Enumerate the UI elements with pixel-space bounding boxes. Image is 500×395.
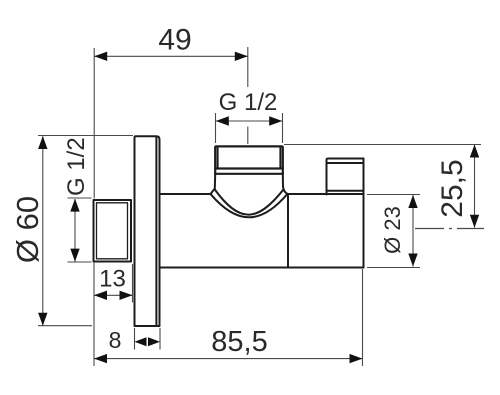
arrow 8 right [148,337,160,346]
arrow 49 right [235,52,248,61]
arrow 85.5 right [350,354,363,363]
arrow 49 left [94,52,107,61]
dim 25.5 top ext (from outlet top) [284,144,481,146]
axis dash-dot centerline [415,228,484,230]
top outlet collar line 1 [215,167,283,169]
dim G1/2 top right ext [282,113,284,143]
top outlet G1/2 top edge [215,146,283,173]
arrow O60 bottom [38,313,47,326]
arrow G1/2 top left [216,116,229,125]
svg-text:13: 13 [99,266,126,293]
dim O60 vertical line [42,136,44,325]
svg-text:8: 8 [109,327,122,353]
arrow 8 left [135,337,147,346]
arrow O60 top [38,136,47,149]
arrow G1/2 top right [269,116,282,125]
outlet right side below collar with flare [283,174,288,194]
dim 13 right ext [132,264,134,303]
body bottom edge [160,267,364,269]
flange right edge inner line [155,137,157,326]
dim 8 right ext [159,328,161,350]
dim O60 top ext [38,135,133,137]
dim O23 bottom ext [367,267,420,269]
body internal step [287,194,289,268]
handle square cap [327,159,364,195]
body right face [363,159,365,268]
handle cap inner top line [327,162,364,164]
dim G1/2 left vertical line [74,199,76,262]
arrow G1/2 left bottom [70,249,79,262]
top outlet collar line 2 [215,173,283,175]
dim 13 line [94,294,133,296]
outlet centerline upper segment [247,47,249,87]
handle cap bottom line [327,190,364,192]
body main top edge [160,193,212,195]
arrow 25.5 top [470,145,479,158]
svg-text:Ø 60: Ø 60 [10,196,45,263]
dim 49 line [94,55,248,57]
dim G1/2 top line [216,120,282,122]
dim O23 top ext [367,194,420,196]
arrow 85.5 left [94,354,107,363]
wall flange plate [135,136,160,326]
left inlet fitting G1/2 outer [94,200,132,262]
dim 49 left extension line (down to inlet fitting) [93,48,95,199]
svg-text:G 1/2: G 1/2 [63,137,90,196]
top outlet inner thread left [217,147,219,169]
saddle inner curve [211,194,287,217]
dim 85.5 line [94,358,363,360]
left inlet fitting inner thread lines [97,203,128,259]
arrow 13 right [120,291,133,300]
dim 49/13/85.5 shared left ext lower part [93,262,95,366]
saddle outer curve [215,190,283,215]
dim G1/2 top left ext [215,113,217,143]
arrow 13 left [94,291,107,300]
outlet centerline lower segment [247,127,249,145]
arrow O23 top [408,195,417,208]
dim 8 left ext [134,328,136,350]
arrow 25.5 bottom [470,215,479,228]
svg-text:25,5: 25,5 [436,159,469,217]
dim 25.5 vertical line [474,145,476,228]
svg-text:85,5: 85,5 [211,326,267,358]
top outlet inner thread right [279,147,281,169]
svg-text:Ø 23: Ø 23 [380,206,405,254]
dim G1/2 left bottom ext [68,261,92,263]
svg-text:G 1/2: G 1/2 [219,89,278,116]
dim O23 vertical line [412,195,414,267]
outlet left side below collar with flare [211,174,216,194]
svg-text:49: 49 [158,24,191,57]
dim 85.5 right ext [362,269,364,366]
arrow O23 bottom [408,254,417,267]
dim G1/2 left top ext [68,197,92,199]
arrow G1/2 left top [70,199,79,212]
body top edge right of saddle to handle [288,193,364,195]
dim O60 bottom ext [38,325,92,327]
